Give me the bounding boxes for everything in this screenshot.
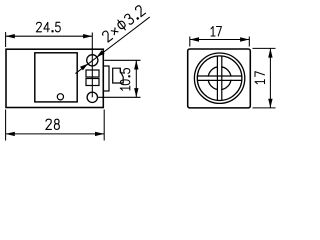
- dim 17 right line: [269, 48, 271, 108]
- slot lines horizontal: [198, 75, 242, 77]
- dim 10.5 extension bottom: [98, 96, 141, 98]
- dim 17 top text: [211, 27, 221, 37]
- slot lines vertical: [216, 56, 218, 100]
- dim 28 arrow left: [6, 132, 15, 136]
- dim 10.5 line: [135, 60, 137, 97]
- dim 17 top extension right: [248, 37, 250, 47]
- sensor face second ring: [197, 56, 242, 101]
- dim 17 top line: [190, 39, 250, 41]
- leader arrow upper-right: [97, 50, 105, 57]
- dim 17 top arrow left: [190, 37, 199, 41]
- mounting hole top: [87, 55, 98, 66]
- dim 24.5 arrow right: [83, 34, 92, 38]
- dim 10.5 arrow bottom: [134, 88, 138, 97]
- terminal block lower: [86, 79, 99, 86]
- sensor face inner circle: [208, 67, 231, 90]
- cable plug profile: [113, 68, 124, 83]
- dim 28 text: [46, 119, 59, 129]
- leader text 2xΦ3.2 (rotated): [101, 4, 146, 42]
- dim 28 extension left: [5, 110, 7, 141]
- mounting hole bottom: [87, 92, 97, 102]
- dim 24.5 arrow left: [6, 34, 15, 38]
- dim 17 top arrow right: [240, 37, 249, 41]
- dim 17 top extension left: [189, 37, 191, 47]
- dim 17 right arrow top: [268, 48, 272, 57]
- dim 24.5 line: [6, 35, 93, 37]
- sensor face outer circle: [194, 53, 244, 103]
- dim 24.5 text: [36, 22, 60, 32]
- dim 10.5 arrow top: [134, 60, 138, 69]
- inner sensing-area rect: [35, 53, 77, 102]
- terminal block upper: [86, 70, 99, 77]
- leader 2xΦ3.2 line: [75, 17, 149, 74]
- dim 10.5 extension top: [104, 59, 140, 61]
- dim 17 right text (rotated): [255, 72, 265, 84]
- indicator LED circle: [57, 94, 63, 100]
- dim 17 right arrow bottom: [268, 99, 272, 108]
- dim 28 extension right: [103, 110, 105, 141]
- front view square 17x17: [188, 49, 251, 108]
- dim 17 right extension top: [253, 47, 276, 49]
- dim 24.5 extension line left: [5, 32, 7, 47]
- dim 28 arrow right: [95, 132, 104, 136]
- leader arrow lower-left: [80, 64, 88, 71]
- connector block: [103, 66, 109, 91]
- dim 28 line: [6, 133, 105, 135]
- side view body 28x17: [6, 49, 103, 107]
- hole center line: [91, 33, 93, 98]
- dim 17 right extension bottom: [253, 107, 276, 109]
- slot mask vertical: [218, 57, 221, 99]
- slot mask horizontal: [198, 77, 240, 80]
- dim 10.5 text (rotated): [120, 69, 130, 91]
